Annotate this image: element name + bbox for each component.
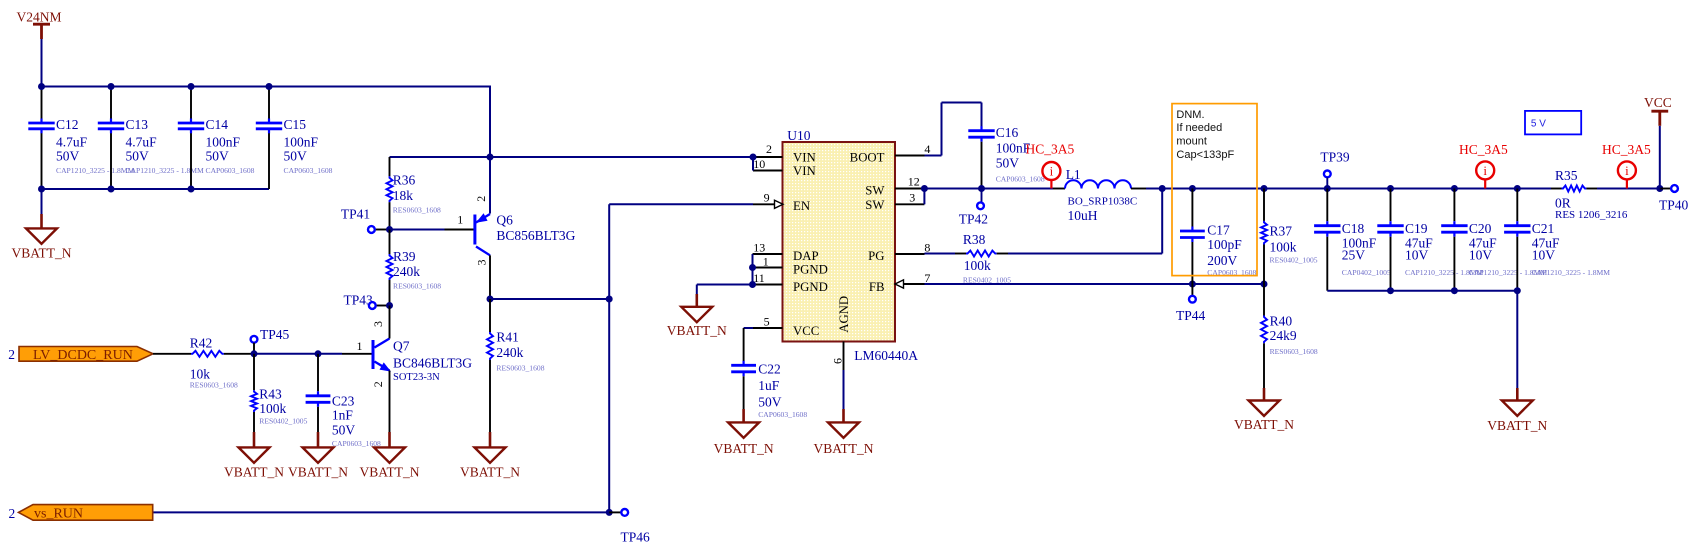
svg-text:Q7: Q7 bbox=[393, 339, 410, 354]
wire from LV_DCDC_RUN port to R42 bbox=[153, 353, 191, 355]
junction top rail at C12 bbox=[38, 83, 45, 90]
wire ground stem below C12 bbox=[41, 189, 43, 214]
svg-text:3: 3 bbox=[475, 260, 489, 266]
svg-text:i: i bbox=[1625, 163, 1629, 178]
svg-text:R37: R37 bbox=[1270, 224, 1293, 239]
wire Q6 collector rail bbox=[490, 298, 609, 300]
svg-text:HC_3A5: HC_3A5 bbox=[1459, 142, 1508, 157]
svg-text:8: 8 bbox=[924, 240, 930, 254]
resistor R43 bbox=[251, 390, 257, 412]
testpoint TP46 ring bbox=[621, 509, 628, 516]
svg-text:240k: 240k bbox=[496, 345, 523, 360]
svg-text:VBATT_N: VBATT_N bbox=[288, 465, 348, 480]
svg-text:50V: 50V bbox=[206, 148, 230, 163]
junction SW rail at C16 bbox=[978, 185, 985, 192]
testpoint TP41 ring bbox=[368, 226, 375, 233]
testpoint TP44 stub bbox=[1191, 284, 1193, 296]
testpoint TP39 stub bbox=[1326, 177, 1328, 188]
svg-text:4: 4 bbox=[924, 142, 930, 156]
annotation 5V box bbox=[1525, 111, 1581, 134]
svg-text:Q6: Q6 bbox=[496, 213, 513, 228]
wire R36 bottom lead bbox=[389, 202, 391, 229]
svg-text:VIN: VIN bbox=[793, 150, 816, 164]
wire C17 bottom lead bbox=[1191, 242, 1193, 284]
junction node TP43 / R39 / Q7 collector bbox=[386, 302, 393, 309]
wire C16 top lead bbox=[981, 103, 983, 127]
testpoint TP43 ring bbox=[369, 302, 376, 309]
wire C17 top lead bbox=[1191, 189, 1193, 227]
pin 7 FB stub bbox=[895, 283, 925, 285]
junction rail at C20 bbox=[1451, 185, 1458, 192]
wire C23 top lead bbox=[317, 354, 319, 392]
wire EN vertical bbox=[608, 204, 610, 512]
wire R37 bottom lead bbox=[1263, 245, 1265, 285]
pin 12 SW stub bbox=[895, 188, 924, 190]
wire top rail of input cap bank bbox=[42, 86, 491, 88]
svg-text:C16: C16 bbox=[996, 125, 1019, 140]
resistor R37 bbox=[1261, 221, 1267, 245]
wire Q7 emitter lead bbox=[389, 371, 391, 433]
wire R43 bottom lead bbox=[253, 412, 255, 432]
svg-text:LV_DCDC_RUN: LV_DCDC_RUN bbox=[33, 348, 133, 363]
wire R37 top lead bbox=[1263, 189, 1265, 221]
svg-text:1: 1 bbox=[763, 255, 769, 269]
wire R38 left lead bbox=[955, 253, 966, 255]
junction rail at C17 bbox=[1189, 185, 1196, 192]
wire C23 bottom lead bbox=[317, 407, 319, 432]
svg-text:200V: 200V bbox=[1207, 253, 1237, 268]
svg-text:AGND: AGND bbox=[837, 296, 851, 333]
transistor Q7 body bbox=[372, 340, 375, 369]
pin 5 VCC stub bbox=[753, 327, 783, 329]
wire PGND to ground bbox=[697, 284, 753, 286]
svg-text:VBATT_N: VBATT_N bbox=[714, 441, 774, 456]
svg-text:RES 1206_3216: RES 1206_3216 bbox=[1555, 209, 1628, 221]
svg-text:11: 11 bbox=[753, 271, 765, 285]
svg-text:RES0402_1005: RES0402_1005 bbox=[259, 416, 307, 425]
svg-text:100pF: 100pF bbox=[1207, 237, 1242, 252]
pin 1 PGND stub bbox=[753, 267, 783, 269]
power symbol V24NM bbox=[33, 23, 50, 26]
svg-text:RES0603_1608: RES0603_1608 bbox=[496, 364, 544, 373]
svg-text:mount: mount bbox=[1176, 136, 1207, 148]
svg-text:TP41: TP41 bbox=[341, 207, 370, 222]
junction bottom rail at C14 bbox=[188, 186, 195, 193]
svg-text:VBATT_N: VBATT_N bbox=[12, 246, 72, 261]
pin 9 EN input arrow bbox=[775, 200, 784, 208]
capacitor C22 bbox=[742, 361, 744, 366]
junction PGND tie at pin 11 bbox=[749, 281, 756, 288]
wire AGND down bbox=[843, 370, 845, 409]
junction top rail at C13 bbox=[108, 83, 115, 90]
ground VBATT_N below C23 bbox=[317, 432, 320, 448]
capacitor C13 bbox=[110, 119, 112, 124]
junction node VIN row / vertical from cap bank bbox=[487, 154, 494, 161]
wire R40 top lead bbox=[1263, 284, 1265, 316]
svg-text:CAP0402_1005: CAP0402_1005 bbox=[1342, 268, 1391, 277]
wire C18 top lead bbox=[1326, 189, 1328, 222]
junction PGND tie at pin 1 bbox=[749, 264, 756, 271]
pin 4 BOOT stub bbox=[895, 155, 925, 157]
wire R36 top lead bbox=[389, 157, 391, 176]
wire L1 left lead bbox=[1053, 188, 1065, 190]
capacitor C23 bbox=[317, 391, 319, 396]
svg-text:TP42: TP42 bbox=[959, 212, 988, 227]
svg-text:4.7uF: 4.7uF bbox=[126, 134, 158, 149]
testpoint TP46 stub bbox=[609, 511, 621, 513]
junction bottom rail at C13 bbox=[108, 186, 115, 193]
probe HC_3A5 at SW node bbox=[1050, 180, 1052, 189]
pin 7 FB input arrow bbox=[895, 280, 904, 288]
wire R43 top lead bbox=[253, 354, 255, 390]
svg-text:PGND: PGND bbox=[793, 262, 828, 276]
inductor L1 bbox=[1065, 180, 1131, 188]
svg-text:i: i bbox=[1050, 164, 1054, 179]
wire C15 top lead bbox=[268, 87, 270, 119]
svg-text:LM60440A: LM60440A bbox=[854, 348, 918, 363]
wire C16 bottom lead bbox=[981, 142, 983, 189]
wire VIN row from R36 top to U10 bbox=[390, 156, 754, 158]
annotation DNM box bbox=[1172, 104, 1257, 276]
svg-text:50V: 50V bbox=[996, 156, 1020, 171]
svg-text:C23: C23 bbox=[332, 394, 355, 409]
wire C21 bottom lead bbox=[1516, 237, 1518, 291]
svg-text:CAP0603_1608: CAP0603_1608 bbox=[206, 166, 255, 175]
svg-text:5: 5 bbox=[764, 315, 770, 329]
svg-text:RES0402_1005: RES0402_1005 bbox=[1270, 256, 1318, 265]
wire Q7 collector lead bbox=[389, 306, 391, 339]
svg-text:TP46: TP46 bbox=[621, 530, 651, 545]
wire R41 top lead bbox=[489, 299, 491, 332]
svg-text:CAP0603_1608: CAP0603_1608 bbox=[758, 410, 807, 419]
wire SW rail segment 1 bbox=[924, 188, 1053, 190]
resistor R35 bbox=[1562, 186, 1587, 192]
wire vs_RUN row bbox=[153, 511, 610, 513]
resistor R38 bbox=[966, 251, 997, 257]
wire R42 right lead bbox=[224, 353, 254, 355]
svg-text:R35: R35 bbox=[1555, 168, 1578, 183]
wire ground stem below C21 bbox=[1516, 291, 1518, 388]
resistor R40 bbox=[1261, 316, 1267, 344]
junction top rail at C14 bbox=[188, 83, 195, 90]
wire VCC riser bbox=[1659, 126, 1661, 189]
wire BOOT to riser bbox=[925, 155, 942, 157]
svg-text:18k: 18k bbox=[393, 188, 414, 203]
svg-text:50V: 50V bbox=[284, 148, 308, 163]
svg-text:FB: FB bbox=[869, 280, 885, 294]
svg-text:C22: C22 bbox=[758, 362, 781, 377]
wire C22 bottom lead bbox=[743, 376, 745, 409]
svg-text:VCC: VCC bbox=[1644, 95, 1672, 110]
svg-text:R39: R39 bbox=[393, 249, 416, 264]
svg-text:R42: R42 bbox=[190, 336, 213, 351]
wire node to C23 bbox=[254, 353, 318, 355]
wire C19 bottom lead bbox=[1390, 237, 1392, 291]
wire Q7 base lead bbox=[342, 353, 372, 355]
capacitor C16 bbox=[980, 126, 982, 131]
wire C15 bottom lead bbox=[268, 133, 270, 189]
svg-text:100k: 100k bbox=[964, 258, 991, 273]
pin 10 VIN stub bbox=[753, 170, 783, 172]
svg-text:vs_RUN: vs_RUN bbox=[34, 507, 83, 522]
capacitor C20 bbox=[1453, 221, 1455, 226]
wire pin2-pin10 tie bbox=[752, 157, 754, 171]
svg-text:C17: C17 bbox=[1207, 223, 1230, 238]
svg-text:3: 3 bbox=[909, 190, 915, 204]
junction VIN pins tie bbox=[750, 154, 757, 161]
svg-text:100nF: 100nF bbox=[284, 134, 319, 149]
svg-text:RES0603_1608: RES0603_1608 bbox=[190, 381, 238, 390]
svg-text:50V: 50V bbox=[126, 148, 150, 163]
svg-text:R38: R38 bbox=[963, 232, 986, 247]
wire C14 top lead bbox=[190, 87, 192, 119]
port LV_DCDC_RUN bbox=[19, 347, 153, 362]
svg-text:V24NM: V24NM bbox=[17, 10, 62, 25]
svg-text:TP45: TP45 bbox=[260, 327, 290, 342]
junction bottom rail at C20 bbox=[1451, 287, 1458, 294]
testpoint TP45 stub bbox=[253, 343, 255, 354]
capacitor C17 bbox=[1191, 227, 1193, 232]
junction bottom rail at C12 bbox=[38, 186, 45, 193]
svg-text:100k: 100k bbox=[259, 401, 286, 416]
capacitor C18 bbox=[1326, 221, 1328, 226]
svg-text:R41: R41 bbox=[496, 330, 519, 345]
svg-text:BC846BLT3G: BC846BLT3G bbox=[393, 356, 472, 371]
svg-text:10V: 10V bbox=[1405, 248, 1429, 263]
wire R41 bottom lead bbox=[489, 360, 491, 432]
svg-text:PG: PG bbox=[868, 249, 884, 263]
svg-text:50V: 50V bbox=[56, 148, 80, 163]
capacitor C14 bbox=[190, 119, 192, 124]
svg-text:25V: 25V bbox=[1342, 248, 1366, 263]
junction VCC node bbox=[1656, 185, 1663, 192]
svg-text:1uF: 1uF bbox=[758, 378, 780, 393]
svg-text:TP40: TP40 bbox=[1659, 198, 1689, 213]
port vs_RUN bbox=[19, 505, 153, 521]
testpoint TP45 ring bbox=[251, 336, 258, 343]
testpoint TP42 stub bbox=[981, 189, 983, 203]
svg-text:100k: 100k bbox=[1270, 239, 1297, 254]
svg-text:5 V: 5 V bbox=[1531, 119, 1546, 130]
wire R38 to riser bbox=[1008, 253, 1162, 255]
svg-text:50V: 50V bbox=[758, 394, 782, 409]
wire Q6 base from node bbox=[390, 229, 445, 231]
svg-text:C15: C15 bbox=[284, 117, 307, 132]
svg-text:C18: C18 bbox=[1342, 221, 1365, 236]
wire C13 top lead bbox=[110, 87, 112, 119]
ground VBATT_N below output bank bbox=[1516, 388, 1519, 402]
probe HC_3A5 at VCC node bbox=[1626, 179, 1628, 188]
svg-text:TP39: TP39 bbox=[1320, 150, 1350, 165]
svg-text:10: 10 bbox=[753, 157, 765, 171]
svg-text:VBATT_N: VBATT_N bbox=[224, 465, 284, 480]
svg-text:CAP0603_1608: CAP0603_1608 bbox=[996, 175, 1045, 184]
svg-text:BO_SRP1038C: BO_SRP1038C bbox=[1068, 196, 1138, 208]
junction FB at C17/TP44 bbox=[1189, 281, 1196, 288]
svg-text:1: 1 bbox=[457, 213, 463, 227]
testpoint TP44 ring bbox=[1189, 296, 1196, 303]
wire PG from pin 8 bbox=[925, 253, 956, 255]
junction node TP41 / R36 / R39 / Q6 base bbox=[386, 226, 393, 233]
svg-text:DNM.: DNM. bbox=[1176, 109, 1204, 121]
svg-text:CAP1210_3225 - 1.8MM: CAP1210_3225 - 1.8MM bbox=[56, 166, 135, 175]
power symbol VCC bbox=[1651, 110, 1668, 113]
svg-text:C19: C19 bbox=[1405, 221, 1428, 236]
wire R38 right lead bbox=[997, 253, 1008, 255]
svg-text:VBATT_N: VBATT_N bbox=[460, 465, 520, 480]
testpoint TP43 stub bbox=[376, 305, 390, 307]
svg-text:100nF: 100nF bbox=[206, 134, 241, 149]
testpoint TP39 ring bbox=[1324, 171, 1331, 178]
svg-text:Cap<133pF: Cap<133pF bbox=[1176, 149, 1234, 161]
junction rail at R37 bbox=[1261, 185, 1268, 192]
pin 13 DAP stub bbox=[753, 253, 783, 255]
junction top rail at C15 bbox=[266, 83, 273, 90]
wire C22 top lead bbox=[743, 328, 745, 361]
svg-text:R40: R40 bbox=[1270, 314, 1293, 329]
capacitor C19 bbox=[1389, 221, 1391, 226]
svg-text:CAP0603_1608: CAP0603_1608 bbox=[284, 166, 333, 175]
svg-text:R36: R36 bbox=[393, 173, 416, 188]
junction rail at R38 riser bbox=[1159, 185, 1166, 192]
wire C20 bottom lead bbox=[1453, 237, 1455, 291]
svg-text:2: 2 bbox=[766, 142, 772, 156]
svg-text:L1: L1 bbox=[1066, 167, 1081, 182]
svg-text:12: 12 bbox=[908, 174, 920, 188]
svg-text:50V: 50V bbox=[332, 423, 356, 438]
pin 2 VIN stub bbox=[753, 156, 783, 158]
wire BOOT riser up bbox=[941, 103, 943, 156]
junction node R42 / R43 / TP45 bbox=[251, 350, 258, 357]
wire EN row to U10 pin 9 bbox=[609, 203, 753, 205]
svg-text:R43: R43 bbox=[259, 387, 282, 402]
wire bend down to VIN row bbox=[489, 86, 491, 158]
svg-text:BC856BLT3G: BC856BLT3G bbox=[496, 228, 575, 243]
wire C12 bottom lead bbox=[41, 133, 43, 189]
ground VBATT_N at U10 PGND bbox=[695, 294, 698, 308]
svg-text:2: 2 bbox=[371, 381, 385, 387]
svg-text:U10: U10 bbox=[787, 128, 810, 143]
svg-text:C20: C20 bbox=[1469, 221, 1492, 236]
svg-text:6: 6 bbox=[830, 358, 844, 364]
svg-text:BOOT: BOOT bbox=[850, 150, 885, 164]
svg-text:RES0603_1608: RES0603_1608 bbox=[1270, 347, 1318, 356]
wire L1 right lead bbox=[1131, 188, 1146, 190]
wire BOOT top across bbox=[942, 102, 982, 104]
capacitor C12 bbox=[40, 119, 42, 124]
svg-text:9: 9 bbox=[764, 190, 770, 204]
wire C20 top lead bbox=[1453, 189, 1455, 222]
svg-text:3: 3 bbox=[371, 321, 385, 327]
svg-text:C13: C13 bbox=[126, 117, 149, 132]
svg-text:CAP1210_3225 - 1.8MM: CAP1210_3225 - 1.8MM bbox=[1532, 268, 1611, 277]
wire C21 top lead bbox=[1516, 189, 1518, 222]
resistor R42 bbox=[191, 351, 224, 357]
svg-text:VCC: VCC bbox=[793, 324, 819, 338]
testpoint TP40 ring bbox=[1671, 185, 1678, 192]
pin 8 PG stub bbox=[895, 253, 925, 255]
wire R38 riser up to rail bbox=[1161, 189, 1163, 254]
junction rail at C21 bbox=[1514, 185, 1521, 192]
svg-text:SOT23-3N: SOT23-3N bbox=[393, 372, 440, 383]
svg-text:2: 2 bbox=[8, 347, 15, 362]
svg-text:RES0603_1608: RES0603_1608 bbox=[393, 206, 441, 215]
wire R35 left lead bbox=[1551, 188, 1562, 190]
svg-text:1nF: 1nF bbox=[332, 408, 354, 423]
svg-text:VBATT_N: VBATT_N bbox=[1487, 418, 1547, 433]
svg-text:10V: 10V bbox=[1469, 248, 1493, 263]
wire R39 bottom lead bbox=[389, 280, 391, 306]
svg-text:PGND: PGND bbox=[793, 280, 828, 294]
testpoint TP41 stub bbox=[375, 229, 390, 231]
svg-text:HC_3A5: HC_3A5 bbox=[1602, 142, 1651, 157]
svg-text:C21: C21 bbox=[1532, 221, 1555, 236]
svg-text:VBATT_N: VBATT_N bbox=[1234, 417, 1294, 432]
ground VBATT_N below input cap bank bbox=[40, 214, 43, 229]
wire output rail segment 2 bbox=[1146, 188, 1551, 190]
ground VBATT_N at U10 AGND bbox=[842, 409, 845, 423]
capacitor C21 bbox=[1516, 221, 1518, 226]
svg-text:4.7uF: 4.7uF bbox=[56, 134, 88, 149]
svg-text:HC_3A5: HC_3A5 bbox=[1026, 142, 1075, 157]
resistor R41 bbox=[487, 332, 493, 360]
wire R39 top lead bbox=[389, 230, 391, 255]
ground VBATT_N below R43 bbox=[253, 432, 256, 448]
probe HC_3A5 at output bank bbox=[1484, 179, 1486, 188]
svg-text:1: 1 bbox=[357, 339, 363, 353]
junction rail at C19 bbox=[1387, 185, 1394, 192]
svg-text:10k: 10k bbox=[190, 367, 211, 382]
wire R35 to VCC node bbox=[1597, 188, 1660, 190]
junction SW pins tie bbox=[921, 185, 928, 192]
testpoint TP42 ring bbox=[977, 202, 984, 209]
wire Q6 base lead bbox=[445, 229, 474, 231]
junction bottom rail at C21 bbox=[1514, 287, 1521, 294]
svg-text:TP44: TP44 bbox=[1176, 308, 1206, 323]
ground VBATT_N below R41 bbox=[489, 432, 492, 448]
wire C12 top lead bbox=[41, 87, 43, 119]
wire C18 bottom lead bbox=[1326, 237, 1328, 291]
svg-text:SW: SW bbox=[865, 183, 885, 197]
wire C13 bottom lead bbox=[110, 133, 112, 189]
resistor R39 bbox=[387, 254, 393, 280]
svg-text:C14: C14 bbox=[206, 117, 229, 132]
pin 6 AGND stub bbox=[843, 342, 845, 371]
svg-text:24k9: 24k9 bbox=[1270, 328, 1297, 343]
svg-text:13: 13 bbox=[753, 240, 765, 254]
wire SW pins tie vertical bbox=[923, 189, 925, 205]
junction Q6 collector rail / EN vertical bbox=[606, 296, 613, 303]
pin 3 SW stub bbox=[895, 203, 924, 205]
svg-text:10uH: 10uH bbox=[1068, 208, 1098, 223]
ground VBATT_N below R40 bbox=[1263, 388, 1266, 402]
svg-text:2: 2 bbox=[9, 506, 16, 521]
junction FB at R37/R40 bbox=[1261, 281, 1268, 288]
svg-text:C12: C12 bbox=[56, 117, 79, 132]
svg-text:VIN: VIN bbox=[793, 164, 816, 178]
svg-text:RES0603_1608: RES0603_1608 bbox=[393, 282, 441, 291]
junction bottom rail at C19 bbox=[1387, 287, 1394, 294]
wire PGND ground bend bbox=[696, 285, 698, 295]
svg-text:2: 2 bbox=[474, 196, 488, 202]
svg-text:SW: SW bbox=[865, 198, 885, 212]
svg-text:VBATT_N: VBATT_N bbox=[360, 465, 420, 480]
svg-text:240k: 240k bbox=[393, 264, 420, 279]
wire V24NM stem bbox=[41, 39, 43, 87]
ground VBATT_N below Q7 bbox=[388, 432, 391, 448]
wire pin5 to C22 bbox=[744, 327, 753, 329]
junction node C23 / Q7 base bbox=[315, 350, 322, 357]
